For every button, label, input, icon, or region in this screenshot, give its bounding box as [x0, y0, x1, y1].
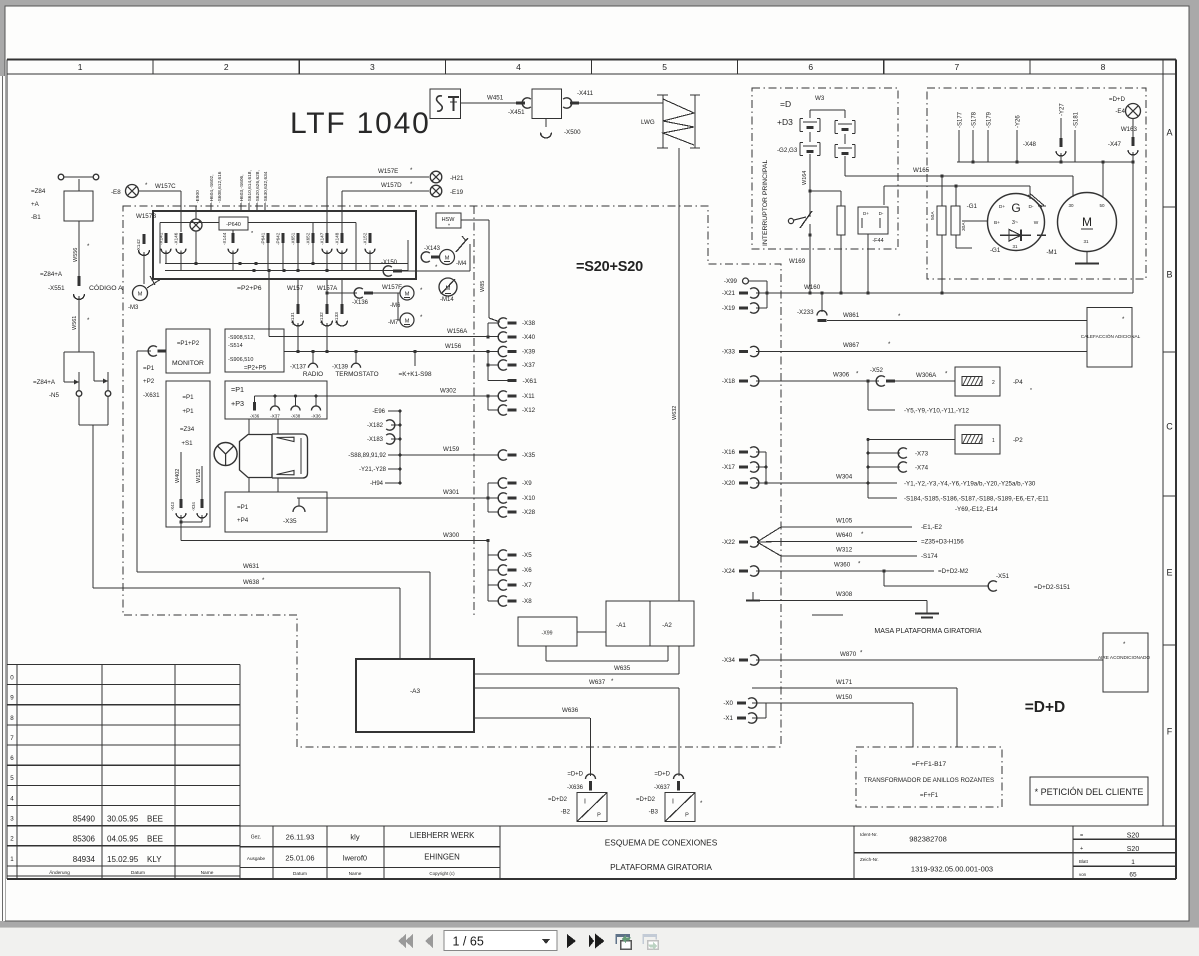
- svg-text:-E4: -E4: [1115, 108, 1125, 115]
- svg-text:=P1: =P1: [182, 394, 194, 401]
- svg-text:=Z34: =Z34: [180, 426, 195, 433]
- svg-text:-X651: -X651: [291, 232, 296, 245]
- svg-text:-N5: -N5: [49, 392, 60, 399]
- svg-text:-M4: -M4: [456, 261, 467, 267]
- svg-text:-Y69,-E12,-E14: -Y69,-E12,-E14: [955, 506, 998, 513]
- svg-text:-X43: -X43: [170, 501, 175, 511]
- svg-text:-X33: -X33: [722, 349, 736, 356]
- svg-text:W640: W640: [836, 532, 853, 539]
- svg-text:-Y26: -Y26: [1015, 115, 1021, 128]
- svg-text:W306: W306: [833, 372, 850, 379]
- svg-text:5: 5: [662, 62, 667, 72]
- svg-text:B: B: [1166, 270, 1172, 280]
- svg-text:P: P: [597, 813, 601, 819]
- svg-text:-X636: -X636: [567, 785, 584, 791]
- svg-text:5: 5: [10, 775, 14, 782]
- svg-text:-S610,614,618,: -S610,614,618,: [247, 170, 253, 203]
- svg-text:PLATAFORMA GIRATORIA: PLATAFORMA GIRATORIA: [610, 862, 712, 872]
- svg-text:4: 4: [10, 795, 14, 802]
- svg-text:+P2: +P2: [143, 378, 155, 385]
- svg-text:-X133: -X133: [334, 312, 340, 325]
- svg-text:=D+D: =D+D: [1109, 96, 1126, 103]
- svg-text:W160: W160: [804, 284, 821, 291]
- svg-text:-M1: -M1: [1046, 249, 1057, 256]
- svg-text:W3: W3: [815, 95, 825, 102]
- svg-text:W171: W171: [836, 679, 853, 686]
- svg-text:Name: Name: [349, 871, 362, 877]
- svg-text:50A: 50A: [930, 211, 936, 220]
- svg-text:2: 2: [10, 836, 14, 843]
- svg-text:lwerof0: lwerof0: [343, 854, 367, 863]
- svg-text:+S1: +S1: [181, 440, 193, 447]
- svg-text:-X411: -X411: [577, 90, 594, 97]
- svg-text:-B3: -B3: [649, 810, 659, 816]
- svg-text:-S174: -S174: [921, 553, 938, 560]
- svg-text:-X146: -X146: [174, 232, 179, 245]
- svg-text:-X36: -X36: [250, 414, 260, 419]
- svg-text:M: M: [445, 256, 450, 262]
- svg-text:=K+K1-S98: =K+K1-S98: [398, 371, 431, 378]
- svg-text:+: +: [1080, 846, 1083, 852]
- svg-text:2: 2: [224, 62, 229, 72]
- svg-text:=P2+P5: =P2+P5: [244, 365, 267, 372]
- svg-text:W631: W631: [243, 563, 260, 570]
- svg-text:-P641: -P641: [261, 232, 266, 245]
- svg-text:-X9: -X9: [522, 480, 532, 487]
- svg-text:=P1: =P1: [237, 504, 249, 511]
- svg-text:=F+F1: =F+F1: [920, 792, 939, 799]
- svg-text:-X152: -X152: [363, 232, 368, 245]
- svg-text:-A1: -A1: [616, 622, 626, 629]
- svg-text:982382708: 982382708: [909, 835, 947, 844]
- svg-text:-X141: -X141: [159, 232, 164, 245]
- svg-text:2: 2: [992, 380, 995, 386]
- svg-text:-X148: -X148: [335, 232, 340, 245]
- svg-text:-P2: -P2: [1013, 437, 1023, 444]
- svg-text:W302: W302: [440, 388, 457, 395]
- svg-text:-X10: -X10: [522, 495, 536, 502]
- svg-text:-S514: -S514: [228, 343, 243, 349]
- svg-text:-M7: -M7: [388, 320, 399, 326]
- svg-text:=F+F1-B17: =F+F1-B17: [912, 761, 947, 768]
- svg-text:TRANSFORMADOR DE ANILLOS ROZAN: TRANSFORMADOR DE ANILLOS ROZANTES: [864, 777, 994, 784]
- svg-text:+A: +A: [31, 201, 40, 208]
- svg-text:1: 1: [1131, 859, 1135, 866]
- svg-text:W870: W870: [840, 651, 857, 658]
- svg-text:MONITOR: MONITOR: [172, 360, 204, 367]
- svg-text:-X233: -X233: [797, 309, 814, 316]
- svg-text:7: 7: [954, 62, 959, 72]
- svg-text:=Z84+A: =Z84+A: [33, 379, 56, 386]
- svg-text:von: von: [1079, 872, 1087, 877]
- svg-text:-B1: -B1: [31, 214, 41, 221]
- svg-text:-X61: -X61: [523, 378, 538, 385]
- svg-text:26.11.93: 26.11.93: [286, 833, 315, 842]
- svg-text:-A2: -A2: [662, 622, 672, 629]
- svg-text:=: =: [1080, 833, 1083, 839]
- svg-text:-X39: -X39: [522, 349, 536, 356]
- svg-text:-X652: -X652: [306, 232, 311, 245]
- svg-text:-S908,512,: -S908,512,: [228, 335, 255, 341]
- svg-text:=Z84+A: =Z84+A: [40, 271, 63, 278]
- svg-text:0: 0: [10, 675, 14, 682]
- svg-text:-E19: -E19: [450, 189, 464, 196]
- svg-text:-M6: -M6: [390, 303, 401, 309]
- svg-text:-P640: -P640: [226, 222, 241, 228]
- svg-text:W306A: W306A: [916, 372, 937, 379]
- svg-text:3: 3: [10, 816, 14, 823]
- svg-text:-X40: -X40: [522, 334, 536, 341]
- svg-text:MASA PLATAFORMA GIRATORIA: MASA PLATAFORMA GIRATORIA: [874, 628, 982, 635]
- svg-text:65: 65: [1129, 872, 1137, 879]
- svg-text:84934: 84934: [73, 855, 96, 864]
- svg-text:W635: W635: [614, 665, 631, 672]
- svg-text:*: *: [448, 224, 450, 230]
- svg-text:S20: S20: [1127, 846, 1140, 853]
- svg-text:9: 9: [10, 695, 14, 702]
- svg-text:W157F: W157F: [382, 284, 402, 291]
- svg-text:-X99: -X99: [542, 631, 553, 637]
- svg-text:Datum: Datum: [293, 871, 307, 877]
- svg-text:D+: D+: [999, 204, 1005, 210]
- svg-text:=D+D: =D+D: [1025, 699, 1066, 716]
- svg-text:-X551: -X551: [48, 285, 65, 292]
- svg-text:W163: W163: [1121, 126, 1138, 133]
- svg-text:=P1: =P1: [143, 365, 155, 372]
- svg-text:W157D: W157D: [381, 182, 402, 189]
- svg-text:D+: D+: [863, 211, 869, 216]
- svg-text:-Y27: -Y27: [1059, 103, 1065, 116]
- svg-text:8: 8: [1101, 62, 1106, 72]
- svg-text:D-: D-: [879, 211, 884, 216]
- svg-text:=D+D: =D+D: [654, 772, 670, 778]
- svg-text:-X131: -X131: [290, 312, 296, 325]
- svg-text:-E1,-E2: -E1,-E2: [921, 524, 943, 531]
- svg-text:=S20+S20: =S20+S20: [576, 259, 643, 275]
- svg-text:1: 1: [992, 438, 995, 444]
- svg-text:-X1: -X1: [723, 715, 733, 722]
- svg-text:C: C: [1166, 422, 1173, 432]
- svg-text:D-: D-: [1028, 204, 1033, 210]
- svg-text:-S184,-S185,-S186,-S187,-S188,: -S184,-S185,-S186,-S187,-S188,-S189,-E6,…: [904, 496, 1049, 503]
- svg-text:BEE: BEE: [147, 815, 163, 824]
- svg-text:3: 3: [370, 62, 375, 72]
- svg-text:6: 6: [808, 62, 813, 72]
- svg-text:=Z35+D3-H156: =Z35+D3-H156: [921, 539, 964, 546]
- svg-text:kly: kly: [350, 833, 359, 842]
- svg-text:W157C: W157C: [155, 183, 176, 190]
- svg-text:* PETICIÓN DEL CLIENTE: * PETICIÓN DEL CLIENTE: [1035, 787, 1144, 797]
- svg-text:Name: Name: [201, 870, 214, 876]
- svg-text:W169: W169: [789, 258, 806, 265]
- svg-text:W164: W164: [802, 171, 808, 185]
- svg-text:EHINGEN: EHINGEN: [424, 853, 460, 862]
- svg-text:-S179: -S179: [986, 111, 992, 128]
- svg-text:+P3: +P3: [231, 399, 244, 408]
- svg-text:1: 1: [78, 62, 83, 72]
- svg-text:=Z84: =Z84: [31, 188, 46, 195]
- svg-text:-X48: -X48: [1023, 141, 1037, 148]
- svg-text:-Y1,-Y2,-Y3,-Y4,-Y6,-Y19a/b,-Y: -Y1,-Y2,-Y3,-Y4,-Y6,-Y19a/b,-Y20,-Y25a/b…: [904, 481, 1036, 488]
- svg-text:S20: S20: [1127, 833, 1140, 840]
- svg-text:+P4: +P4: [237, 517, 249, 524]
- svg-text:-X36: -X36: [311, 414, 321, 419]
- svg-text:-H94: -H94: [370, 481, 384, 487]
- svg-text:I: I: [584, 799, 586, 806]
- svg-text:04.05.95: 04.05.95: [107, 835, 139, 844]
- svg-text:BEE: BEE: [147, 835, 163, 844]
- svg-text:W157: W157: [287, 285, 304, 292]
- svg-text:25.01.06: 25.01.06: [285, 854, 314, 863]
- svg-text:-S181: -S181: [1073, 111, 1079, 128]
- svg-text:W156: W156: [445, 343, 462, 350]
- svg-text:-X16: -X16: [722, 449, 736, 456]
- svg-text:-Y5,-Y9,-Y10,-Y11,-Y12: -Y5,-Y9,-Y10,-Y11,-Y12: [904, 408, 969, 415]
- svg-text:1 / 65: 1 / 65: [453, 935, 484, 949]
- svg-text:-X143: -X143: [424, 246, 441, 252]
- svg-text:-X139: -X139: [332, 365, 349, 371]
- svg-text:W156A: W156A: [447, 328, 468, 335]
- svg-text:Änderung: Änderung: [49, 869, 70, 876]
- svg-text:30: 30: [1068, 203, 1074, 208]
- svg-text:M: M: [1082, 215, 1092, 229]
- svg-text:-X11: -X11: [522, 393, 535, 400]
- svg-text:=D+D2: =D+D2: [548, 797, 568, 803]
- svg-text:W300: W300: [443, 532, 460, 539]
- svg-text:-X500: -X500: [564, 129, 581, 136]
- svg-text:A: A: [1166, 128, 1172, 138]
- svg-text:31: 31: [1083, 239, 1089, 244]
- svg-text:W561: W561: [72, 316, 78, 330]
- svg-text:W637: W637: [589, 679, 606, 686]
- svg-text:+D3: +D3: [777, 117, 793, 127]
- svg-text:85490: 85490: [73, 815, 96, 824]
- svg-text:B+: B+: [994, 220, 1000, 226]
- svg-text:-Y21,-Y28: -Y21,-Y28: [359, 467, 387, 473]
- svg-text:-E96: -E96: [372, 409, 385, 415]
- svg-text:W312: W312: [836, 547, 853, 554]
- svg-text:1: 1: [10, 856, 14, 863]
- svg-text:-X5: -X5: [522, 552, 532, 559]
- svg-text:-M3: -M3: [128, 305, 139, 311]
- svg-text:W105: W105: [836, 518, 853, 525]
- svg-text:30.05.95: 30.05.95: [107, 815, 139, 824]
- svg-text:Zeich-Nr.: Zeich-Nr.: [860, 857, 879, 862]
- svg-text:*: *: [1030, 388, 1032, 394]
- svg-text:Blatt: Blatt: [1079, 859, 1089, 864]
- svg-text:W451: W451: [487, 95, 504, 102]
- svg-text:-S630,632,634: -S630,632,634: [263, 171, 269, 203]
- svg-text:-X136: -X136: [352, 300, 369, 306]
- svg-text:-E8: -E8: [111, 189, 121, 196]
- svg-text:TERMOSTATO: TERMOSTATO: [335, 371, 378, 378]
- svg-text:I: I: [672, 799, 674, 806]
- svg-text:-X451: -X451: [508, 109, 525, 116]
- svg-text:-X0: -X0: [723, 700, 733, 707]
- svg-text:W556: W556: [73, 248, 79, 262]
- svg-text:W: W: [1034, 220, 1039, 226]
- svg-text:-X18: -X18: [722, 378, 736, 385]
- svg-text:CÓDIGO A: CÓDIGO A: [89, 283, 123, 292]
- svg-text:E: E: [1166, 568, 1172, 578]
- svg-text:-X182: -X182: [367, 423, 384, 429]
- svg-text:KLY: KLY: [147, 855, 162, 864]
- svg-text:-A3: -A3: [410, 688, 421, 695]
- svg-text:=D+D: =D+D: [567, 772, 583, 778]
- svg-text:-X22: -X22: [722, 539, 736, 546]
- svg-text:85306: 85306: [73, 835, 96, 844]
- svg-text:-X21: -X21: [722, 290, 736, 297]
- svg-text:-X51: -X51: [996, 573, 1010, 580]
- svg-text:Copyright (c): Copyright (c): [429, 871, 455, 876]
- svg-text:-X24: -X24: [722, 568, 736, 575]
- svg-text:=D+D2-S151: =D+D2-S151: [1034, 584, 1071, 591]
- svg-text:-B2: -B2: [561, 810, 571, 816]
- svg-text:=D+D2: =D+D2: [636, 797, 656, 803]
- svg-text:W152: W152: [196, 469, 202, 483]
- svg-text:-S608,612,616: -S608,612,616: [217, 171, 223, 203]
- svg-text:-F44: -F44: [872, 238, 883, 244]
- svg-text:-X38: -X38: [522, 320, 536, 327]
- svg-text:-X150: -X150: [381, 260, 398, 266]
- svg-text:W159: W159: [443, 446, 460, 453]
- svg-text:-X6: -X6: [522, 567, 532, 574]
- svg-text:HSW: HSW: [442, 217, 456, 223]
- svg-text:-X17: -X17: [722, 464, 736, 471]
- svg-text:W85: W85: [480, 281, 486, 292]
- svg-text:-P4: -P4: [1013, 379, 1023, 386]
- svg-text:-X99: -X99: [724, 278, 738, 285]
- svg-text:-S88,89,91,92: -S88,89,91,92: [348, 453, 386, 459]
- svg-text:-S620,626,628,: -S620,626,628,: [255, 170, 261, 203]
- svg-text:M: M: [138, 292, 143, 298]
- svg-text:-X52: -X52: [870, 367, 884, 374]
- svg-text:CALEFACCIÓN ADICIONAL: CALEFACCIÓN ADICIONAL: [1081, 333, 1141, 339]
- svg-text:W867: W867: [843, 342, 860, 349]
- svg-text:31: 31: [1012, 244, 1018, 249]
- svg-text:+P1: +P1: [182, 408, 194, 415]
- svg-text:-X12: -X12: [522, 407, 536, 414]
- svg-text:F: F: [1167, 727, 1173, 737]
- svg-text:W157E: W157E: [378, 168, 398, 175]
- svg-text:-X28: -X28: [522, 509, 536, 516]
- svg-text:Gez.: Gez.: [251, 835, 262, 841]
- svg-text:M: M: [405, 319, 410, 325]
- svg-text:-X637: -X637: [654, 785, 671, 791]
- svg-text:W632: W632: [672, 406, 678, 420]
- svg-text:-G2,G3: -G2,G3: [777, 147, 798, 154]
- svg-text:-X144: -X144: [222, 232, 227, 245]
- svg-text:=P1: =P1: [231, 385, 244, 394]
- svg-text:W301: W301: [443, 489, 460, 496]
- svg-text:ESQUEMA DE CONEXIONES: ESQUEMA DE CONEXIONES: [605, 838, 718, 848]
- svg-text:W638: W638: [243, 579, 260, 586]
- svg-text:-X132: -X132: [319, 312, 325, 325]
- svg-text:-G1: -G1: [967, 203, 978, 210]
- svg-text:-X20: -X20: [722, 480, 736, 487]
- svg-text:LWG: LWG: [641, 119, 655, 126]
- svg-text:4: 4: [516, 62, 521, 72]
- svg-text:=P1+P2: =P1+P2: [177, 340, 200, 347]
- svg-text:-X7: -X7: [522, 582, 532, 589]
- svg-text:=D+D2-M2: =D+D2-M2: [938, 568, 969, 575]
- svg-text:-G1: -G1: [990, 247, 1001, 254]
- svg-text:W157B: W157B: [136, 213, 156, 220]
- svg-text:W402: W402: [175, 469, 181, 483]
- svg-text:=D: =D: [780, 99, 791, 109]
- svg-text:-X137: -X137: [290, 365, 307, 371]
- svg-text:W165: W165: [913, 167, 930, 174]
- svg-text:-S906,510: -S906,510: [228, 357, 253, 363]
- svg-text:M: M: [405, 292, 410, 298]
- svg-text:W304: W304: [836, 474, 853, 481]
- svg-text:W360: W360: [834, 562, 851, 569]
- svg-text:Ident-Nr.: Ident-Nr.: [860, 832, 878, 837]
- svg-text:7: 7: [10, 735, 14, 742]
- svg-text:W861: W861: [843, 312, 860, 319]
- svg-text:LTF 1040: LTF 1040: [290, 107, 431, 140]
- svg-text:-X35: -X35: [522, 452, 536, 459]
- svg-text:8: 8: [10, 715, 14, 722]
- svg-text:-X47: -X47: [1108, 141, 1122, 148]
- svg-text:P: P: [685, 813, 689, 819]
- svg-text:15.02.95: 15.02.95: [107, 855, 139, 864]
- svg-text:W308: W308: [836, 591, 853, 598]
- svg-text:AIRE ACONDICIONADO: AIRE ACONDICIONADO: [1098, 655, 1150, 660]
- svg-text:-X74: -X74: [915, 465, 929, 472]
- svg-text:-S178: -S178: [971, 111, 977, 128]
- svg-text:INTERRUPTOR PRINCIPAL: INTERRUPTOR PRINCIPAL: [762, 160, 769, 246]
- svg-text:6: 6: [10, 755, 14, 762]
- svg-text:RADIO: RADIO: [303, 371, 323, 378]
- svg-text:-X37: -X37: [522, 362, 536, 369]
- svg-text:Ausgabe: Ausgabe: [247, 856, 266, 861]
- svg-text:-X631: -X631: [143, 392, 160, 399]
- svg-text:-X8: -X8: [522, 598, 532, 605]
- svg-text:W636: W636: [562, 707, 579, 714]
- svg-text:=P2+P6: =P2+P6: [237, 285, 262, 292]
- svg-text:-H603,-S606,: -H603,-S606,: [239, 174, 245, 203]
- svg-text:-H604,-S602,: -H604,-S602,: [209, 174, 215, 203]
- svg-text:30A: 30A: [961, 222, 967, 231]
- svg-text:-X34: -X34: [722, 657, 736, 664]
- svg-text:-X147: -X147: [320, 232, 325, 245]
- svg-text:-M14: -M14: [440, 297, 454, 303]
- svg-text:-X35: -X35: [283, 518, 297, 525]
- svg-text:-X19: -X19: [722, 305, 736, 312]
- svg-text:-X34: -X34: [191, 501, 196, 511]
- svg-text:-E900: -E900: [195, 190, 201, 203]
- svg-text:-H21: -H21: [450, 175, 464, 182]
- svg-text:W150: W150: [836, 694, 853, 701]
- svg-text:W157A: W157A: [317, 285, 338, 292]
- svg-text:3~: 3~: [1012, 220, 1018, 226]
- svg-text:-X73: -X73: [915, 451, 929, 458]
- svg-text:-P642: -P642: [276, 232, 281, 245]
- svg-text:Datum: Datum: [131, 870, 145, 876]
- svg-text:-S177: -S177: [957, 111, 963, 128]
- svg-text:-X38: -X38: [291, 414, 301, 419]
- svg-text:-X183: -X183: [367, 437, 384, 443]
- svg-text:50: 50: [1099, 203, 1105, 208]
- svg-text:1319-932.05.00.001-003: 1319-932.05.00.001-003: [911, 865, 993, 874]
- svg-text:-X37: -X37: [270, 414, 280, 419]
- svg-text:LIEBHERR WERK: LIEBHERR WERK: [410, 831, 475, 840]
- svg-text:G: G: [1011, 201, 1020, 215]
